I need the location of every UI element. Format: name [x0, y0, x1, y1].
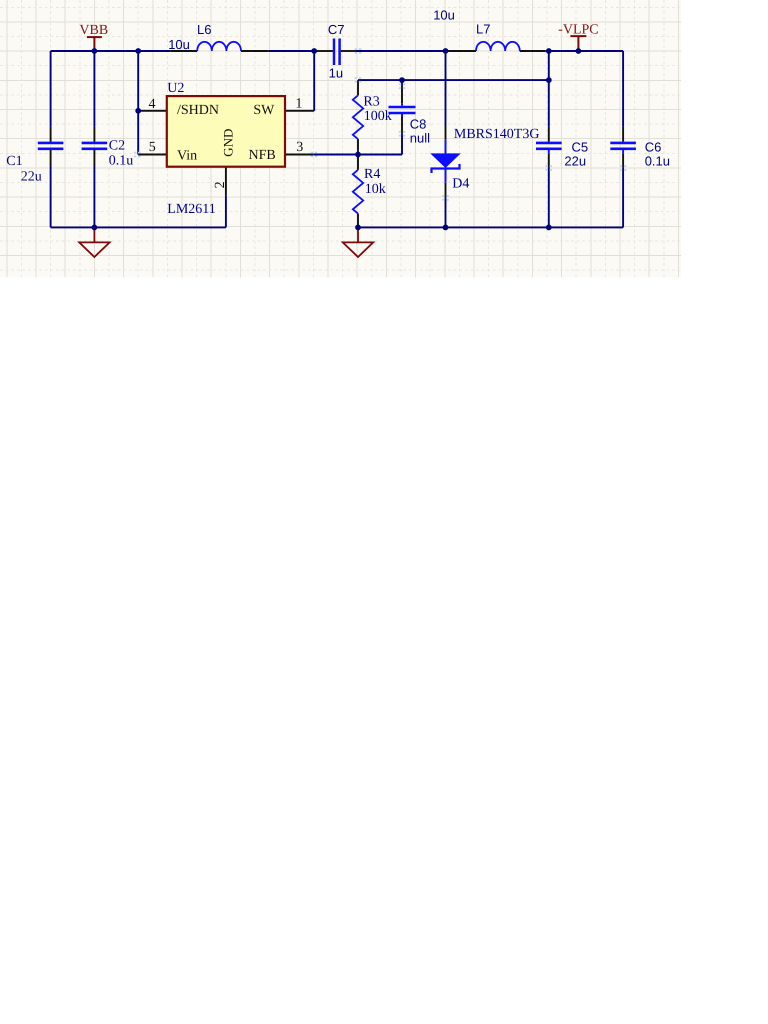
junction C5 riser / output rail — [546, 48, 552, 54]
wire L7 to output corner (-VLPC net) — [546, 50, 623, 52]
pin C8.2 — [401, 114, 403, 134]
wire C2 top lead — [93, 51, 95, 127]
svg-text:10u: 10u — [168, 37, 190, 52]
resistor R3 body — [353, 95, 363, 139]
marker node near C7 pin2 — [355, 48, 357, 50]
pin C6.2 — [622, 154, 624, 168]
wire C1 top lead — [50, 51, 52, 127]
marker D4 cathode pin end — [442, 195, 444, 197]
svg-text:2: 2 — [213, 181, 228, 188]
svg-text:C7: C7 — [328, 22, 345, 37]
pin D4 anode — [445, 125, 447, 139]
junction VBB / top rail — [92, 48, 98, 54]
marker C8 bottom pin end — [399, 131, 401, 133]
svg-text:0.1u: 0.1u — [645, 154, 670, 169]
wire bottom-right ground rail — [358, 226, 623, 228]
junction NFB node — [355, 152, 361, 158]
pin C1.1 — [50, 127, 52, 142]
pin L7.2 — [520, 50, 546, 52]
pin C1.2 — [50, 150, 52, 167]
svg-text:R4: R4 — [364, 167, 380, 182]
pin R3.1 — [357, 80, 359, 95]
marker C5 bottom pin end — [546, 165, 548, 167]
junction feedback net / C5 riser — [546, 77, 552, 83]
svg-text:C8: C8 — [410, 117, 427, 132]
pin C7.1 — [318, 50, 334, 52]
pin C7.2 — [341, 50, 356, 52]
svg-text:100k: 100k — [364, 109, 392, 124]
marker C8 top pin end — [399, 83, 401, 85]
wire NFB node horizontal — [313, 154, 402, 156]
ground symbol left — [79, 227, 109, 257]
svg-text:10k: 10k — [365, 182, 386, 197]
svg-text:C6: C6 — [645, 140, 662, 155]
svg-text:LM2611: LM2611 — [167, 202, 215, 217]
wire C8 top stub — [401, 80, 403, 86]
svg-text:1: 1 — [295, 97, 302, 112]
pin L6.2 — [241, 50, 269, 52]
pin R4.1 — [357, 155, 359, 170]
wire C6 bottom riser — [622, 168, 624, 228]
svg-text:null: null — [410, 131, 430, 146]
pin R3.2 — [357, 139, 359, 151]
pin C8.1 — [401, 86, 403, 104]
wire bottom-left ground rail — [51, 226, 226, 228]
wire C5 bottom lead — [548, 168, 550, 228]
schematic sheet background — [0, 0, 681, 277]
svg-text:U2: U2 — [167, 81, 184, 96]
wire R3 bottom stub — [357, 151, 359, 155]
marker U2 pin5 wire end — [134, 152, 136, 154]
wire C7 to L7 (node SW2) — [355, 50, 448, 52]
svg-text:L7: L7 — [476, 21, 490, 36]
wire C1 bottom lead — [50, 167, 52, 228]
wire GND pin drop — [225, 196, 227, 228]
pin C2.2 — [93, 150, 95, 167]
junction D4 / SW rail — [443, 48, 449, 54]
wire L6 to C7 (node SW1) — [269, 50, 318, 52]
svg-text:D4: D4 — [452, 177, 469, 192]
wire D4 cathode lead lower — [445, 198, 447, 228]
svg-text:0.1u: 0.1u — [109, 153, 134, 168]
pin C5.1 — [548, 127, 550, 142]
svg-text:MBRS140T3G: MBRS140T3G — [454, 127, 540, 142]
capacitor C5 — [536, 143, 562, 149]
pin U2.1 SW — [285, 110, 314, 112]
wire C5 top riser — [548, 51, 550, 127]
wire U2 input riser — [137, 51, 139, 155]
wire feedback net horizontal — [358, 79, 549, 81]
svg-text:5: 5 — [149, 140, 156, 155]
IC U2 LM2611 body — [167, 96, 285, 167]
svg-text:GND: GND — [220, 129, 235, 157]
capacitor C2 — [82, 143, 108, 149]
inductor L6 — [197, 42, 241, 51]
junction SW / C7 — [311, 48, 317, 54]
pin L6.1 — [170, 50, 197, 52]
svg-text:Vin: Vin — [177, 149, 197, 164]
wire C8 bottom riser — [401, 133, 403, 154]
svg-text:22u: 22u — [564, 153, 586, 168]
wire C6 top riser — [622, 51, 624, 127]
svg-text:L6: L6 — [197, 22, 211, 37]
svg-text:10u: 10u — [433, 8, 455, 23]
capacitor C6 — [610, 143, 636, 149]
ground symbol right — [343, 227, 373, 257]
power port VBB — [87, 37, 102, 51]
junction -VLPC / output rail — [576, 48, 582, 54]
junction U2 riser / top rail — [135, 48, 141, 54]
power port -VLPC — [570, 36, 586, 51]
svg-text:1u: 1u — [329, 66, 343, 81]
junction pin4 tap — [135, 108, 141, 114]
svg-text:/SHDN: /SHDN — [177, 103, 219, 118]
pin U2.5 Vin — [138, 154, 167, 156]
junction C8 / feedback net — [399, 77, 405, 83]
pin U2.4 /SHDN — [138, 110, 167, 112]
svg-text:3: 3 — [296, 140, 303, 155]
svg-text:4: 4 — [149, 97, 156, 112]
svg-text:-VLPC: -VLPC — [558, 22, 598, 37]
pin U2.2 GND — [225, 167, 227, 196]
wire D4 anode lead upper — [445, 51, 447, 125]
pin L7.1 — [448, 50, 476, 52]
wire SW pin riser — [313, 51, 315, 111]
junction D4 / ground rail — [443, 225, 449, 231]
capacitor C1 — [38, 143, 64, 149]
pin U2.3 NFB — [285, 154, 313, 156]
pin C2.1 — [93, 127, 95, 142]
resistor R4 body — [353, 170, 363, 214]
svg-text:C2: C2 — [109, 138, 125, 153]
junction ground left — [92, 225, 98, 231]
junction ground right — [355, 225, 361, 231]
pin C6.1 — [622, 127, 624, 142]
svg-text:VBB: VBB — [79, 23, 108, 38]
schottky diode D4 — [432, 154, 460, 167]
pin D4 cathode — [445, 183, 447, 198]
inductor L7 — [476, 42, 520, 51]
marker C6 bottom pin end — [620, 165, 622, 167]
svg-text:22u: 22u — [21, 169, 42, 184]
marker R3 top pin end — [355, 77, 357, 79]
svg-text:NFB: NFB — [248, 148, 275, 163]
pin C5.2 — [548, 154, 550, 168]
wire C2 bottom lead — [93, 167, 95, 228]
pin R4.2 — [357, 214, 359, 228]
junction C5 / ground rail — [546, 225, 552, 231]
svg-text:C1: C1 — [6, 154, 22, 169]
svg-text:SW: SW — [253, 103, 275, 118]
marker U2 pin3 wire end — [311, 152, 313, 154]
svg-text:R3: R3 — [363, 95, 379, 110]
capacitor C8 — [389, 107, 416, 113]
wire top rail (VBB net) — [51, 50, 171, 52]
svg-text:C5: C5 — [572, 140, 589, 155]
capacitor C7 — [334, 39, 340, 66]
